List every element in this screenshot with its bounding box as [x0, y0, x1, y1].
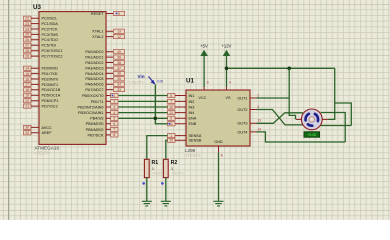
svg-text:PD3/INT1: PD3/INT1	[42, 83, 59, 87]
marker dot at RESET pin	[116, 13, 118, 15]
marker dot at ENB pin	[168, 123, 170, 125]
R2 value 1	[171, 167, 173, 171]
U1 right pin numbers	[257, 93, 261, 131]
svg-text:PC4/TDO: PC4/TDO	[42, 38, 59, 42]
svg-text:39: 39	[117, 55, 121, 59]
svg-text:PD2/INT0: PD2/INT0	[42, 77, 59, 81]
svg-text:ENA: ENA	[189, 117, 197, 121]
svg-text:6: 6	[113, 122, 115, 126]
svg-text:13: 13	[117, 30, 121, 34]
svg-text:8: 8	[221, 153, 223, 157]
svg-text:PA7/ADC7: PA7/ADC7	[85, 88, 103, 92]
svg-text:35: 35	[117, 77, 121, 81]
U3 right pin number boxes	[111, 11, 125, 137]
svg-text:PB1/T1: PB1/T1	[91, 100, 104, 104]
svg-text:4: 4	[113, 111, 115, 115]
U3 left pin stubs	[31, 18, 39, 133]
wire motor top right loop	[321, 113, 346, 143]
U1 value label L298	[185, 148, 196, 153]
U3 reference label	[33, 4, 41, 11]
svg-text:37: 37	[117, 66, 121, 70]
svg-text:16: 16	[25, 77, 29, 81]
svg-text:RESET: RESET	[91, 12, 104, 16]
svg-text:22: 22	[25, 17, 29, 21]
svg-text:19: 19	[25, 94, 29, 98]
U1 text placeholder	[185, 153, 201, 158]
U3 left pin number boxes	[24, 16, 32, 135]
svg-text:PC7/TOSC2: PC7/TOSC2	[42, 55, 63, 59]
svg-text:PC1/SDA: PC1/SDA	[42, 22, 59, 26]
svg-text:PD5/OC1A: PD5/OC1A	[42, 94, 61, 98]
wire PB0 to IN1	[119, 95, 168, 97]
svg-text:<TEXT>: <TEXT>	[171, 172, 184, 176]
U1 right pin stubs	[250, 98, 257, 132]
svg-text:1: 1	[171, 167, 173, 171]
R1 text placeholder	[152, 172, 165, 176]
svg-text:OUT3: OUT3	[237, 122, 247, 126]
svg-text:PA2/ADC2: PA2/ADC2	[85, 61, 103, 65]
svg-text:VS: VS	[226, 96, 231, 100]
svg-text:27: 27	[25, 44, 29, 48]
svg-text:40: 40	[117, 50, 121, 54]
U3 left pin names	[42, 17, 63, 136]
svg-text:14: 14	[25, 67, 29, 71]
svg-text:PD1/TXD: PD1/TXD	[42, 72, 58, 76]
svg-text:PB0/XCK/T0: PB0/XCK/T0	[82, 94, 104, 98]
svg-text:IN1: IN1	[189, 94, 195, 98]
wire R2 to ground	[165, 178, 167, 202]
svg-text:R2: R2	[171, 160, 178, 166]
motor body circle	[301, 109, 322, 130]
svg-text:2: 2	[257, 93, 259, 97]
svg-text:PC5/TDI: PC5/TDI	[42, 44, 57, 48]
wire PB3 to IN4	[119, 112, 168, 114]
power terminal +5V	[200, 44, 208, 87]
wire upper right branch	[335, 103, 352, 126]
svg-text:AVCC: AVCC	[42, 126, 53, 130]
wire R1 to ground	[146, 178, 148, 202]
svg-text:12: 12	[117, 35, 121, 39]
svg-text:PC2/TCK: PC2/TCK	[42, 27, 59, 31]
svg-text:1: 1	[170, 134, 172, 138]
svg-text:OUT2: OUT2	[237, 108, 247, 112]
motor hub	[309, 117, 314, 122]
svg-text:PB2/INT2/AIN0: PB2/INT2/AIN0	[78, 105, 104, 109]
U1 top pin numbers 9 and 4	[207, 81, 231, 85]
svg-text:6: 6	[170, 117, 172, 121]
svg-text:18: 18	[25, 88, 29, 92]
power terminal +12V	[221, 44, 231, 87]
svg-text:PC0/SCL: PC0/SCL	[42, 17, 58, 21]
U3 right pin names	[78, 12, 105, 137]
svg-text:20: 20	[25, 99, 29, 103]
wire U1 GND pin down	[218, 152, 220, 201]
wire SENSA to R1	[147, 136, 168, 160]
svg-text:14: 14	[257, 127, 261, 131]
svg-text:PA5/ADC5: PA5/ADC5	[85, 77, 103, 81]
svg-text:PB5/MOSI: PB5/MOSI	[86, 122, 104, 126]
svg-text:IN4: IN4	[189, 111, 195, 115]
U3 text placeholder	[35, 150, 51, 155]
svg-text:+12V: +12V	[221, 44, 231, 49]
svg-text:R1: R1	[152, 160, 159, 166]
net label Vin with probe arrow	[138, 74, 164, 85]
svg-text:13: 13	[257, 119, 261, 123]
motor commutator arcs	[305, 114, 318, 126]
wire PB2 to IN3	[119, 106, 168, 108]
svg-text:10: 10	[169, 105, 173, 109]
svg-text:3: 3	[257, 105, 259, 109]
svg-text:9: 9	[207, 81, 209, 85]
marker dot below R2	[161, 182, 164, 185]
U1 left pin number boxes	[168, 93, 176, 142]
marker dot at PB0 pin	[111, 95, 113, 97]
R1 reference label	[152, 160, 159, 166]
svg-text:+0.00: +0.00	[307, 133, 316, 137]
svg-text:17: 17	[25, 83, 29, 87]
svg-text:PB4/SS: PB4/SS	[90, 117, 104, 121]
junction rail / OUT1 branch	[287, 67, 291, 71]
svg-text:PB6/MISO: PB6/MISO	[86, 128, 104, 132]
wire rail drop at motor right	[329, 68, 335, 119]
wire OUT4 under motor	[257, 132, 346, 142]
svg-text:U1: U1	[186, 78, 194, 85]
svg-text:U3: U3	[33, 4, 41, 11]
svg-text:ENB: ENB	[189, 122, 197, 126]
ground symbol under U1 GND	[214, 201, 224, 206]
motor rpm display	[304, 132, 320, 138]
svg-text:21: 21	[25, 104, 29, 108]
svg-text:PB7/SCK: PB7/SCK	[87, 133, 104, 137]
svg-text:SENSB: SENSB	[189, 139, 202, 143]
svg-text:5: 5	[113, 117, 115, 121]
svg-text:15: 15	[25, 72, 29, 76]
svg-text:2: 2	[113, 100, 115, 104]
wire PB1 to IN2	[119, 100, 168, 102]
U1 top pin labels VCC VS	[199, 96, 231, 100]
svg-text:7: 7	[170, 100, 172, 104]
marker dot below R1	[142, 182, 145, 185]
ground symbol under R2	[161, 201, 171, 206]
U1 top pin stubs	[204, 86, 226, 91]
svg-text:26: 26	[25, 38, 29, 42]
svg-text:24: 24	[25, 27, 29, 31]
U1 reference label	[186, 78, 194, 85]
svg-text:32: 32	[25, 131, 29, 135]
junction Vin/ENA	[154, 117, 158, 121]
text placeholder near Vin	[129, 79, 145, 84]
wire SENSB to R2	[166, 140, 168, 159]
svg-text:XTAL1: XTAL1	[92, 30, 103, 34]
R1 value 1	[152, 167, 154, 171]
U1 right pin names	[237, 96, 247, 134]
svg-text:+5V: +5V	[200, 44, 208, 49]
svg-text:36: 36	[117, 72, 121, 76]
svg-text:25: 25	[25, 33, 29, 37]
svg-text:PA0/ADC0: PA0/ADC0	[85, 50, 103, 54]
svg-text:<TEXT>: <TEXT>	[185, 153, 201, 158]
svg-text:PA6/ADC6: PA6/ADC6	[85, 83, 103, 87]
U1 left pin stubs	[175, 96, 186, 141]
svg-text:PA4/ADC4: PA4/ADC4	[85, 72, 103, 76]
svg-text:AREF: AREF	[42, 131, 53, 135]
wire OUT1 to branch	[257, 97, 290, 99]
R2 reference label	[171, 160, 178, 166]
R2 text placeholder	[171, 172, 184, 176]
U3 value label ATMEGA16	[35, 146, 60, 151]
svg-text:1: 1	[113, 94, 115, 98]
svg-text:12: 12	[169, 111, 173, 115]
junction on VS stem	[225, 67, 229, 71]
svg-text:PB3/OC0/AIN1: PB3/OC0/AIN1	[78, 111, 104, 115]
svg-text:9: 9	[118, 12, 120, 16]
svg-text:PD0/RXD: PD0/RXD	[42, 67, 59, 71]
svg-text:PA3/ADC3: PA3/ADC3	[85, 66, 103, 70]
sheet border line	[8, 0, 10, 220]
svg-text:PD4/OC1B: PD4/OC1B	[42, 88, 61, 92]
svg-text:OUT1: OUT1	[237, 96, 247, 100]
svg-text:34: 34	[117, 83, 121, 87]
svg-text:0.00: 0.00	[157, 79, 163, 83]
svg-text:7: 7	[113, 128, 115, 132]
ground symbol under R1	[142, 201, 152, 206]
svg-text:3: 3	[113, 105, 115, 109]
U1 bottom pin GND stub	[218, 146, 220, 152]
U1 left pin names	[189, 94, 202, 143]
U1 GND pin name	[214, 140, 223, 144]
svg-text:30: 30	[25, 126, 29, 130]
svg-text:29: 29	[25, 54, 29, 58]
svg-text:23: 23	[25, 22, 29, 26]
svg-text:SENSA: SENSA	[189, 134, 202, 138]
svg-text:33: 33	[117, 88, 121, 92]
svg-text:PD7/OC2: PD7/OC2	[42, 105, 58, 109]
wire rail branch down to motor left	[289, 68, 295, 119]
wire PB4 to ENA	[119, 117, 168, 119]
svg-text:GND: GND	[214, 140, 223, 144]
resistor R1 body	[144, 159, 149, 177]
svg-text:XTAL2: XTAL2	[92, 35, 103, 39]
wire OUT3 crossing to motor upper left	[257, 113, 304, 124]
resistor R2 body	[163, 159, 168, 177]
svg-text:OUT4: OUT4	[237, 130, 247, 134]
U1 GND pin number 8	[221, 153, 223, 157]
svg-text:IN3: IN3	[189, 105, 195, 109]
svg-text:4: 4	[229, 81, 231, 85]
U3 right pin stubs	[106, 14, 113, 135]
svg-text:IN2: IN2	[189, 100, 195, 104]
svg-text:1: 1	[152, 167, 154, 171]
svg-text:PC3/TMS: PC3/TMS	[42, 33, 59, 37]
svg-text:Vin: Vin	[138, 74, 145, 79]
svg-text:<TEXT>: <TEXT>	[35, 150, 51, 155]
svg-text:5: 5	[170, 94, 172, 98]
svg-text:VCC: VCC	[199, 96, 207, 100]
svg-text:28: 28	[25, 49, 29, 53]
driver U1 L298 body	[186, 90, 250, 146]
MCU U3 ATMEGA16 body	[39, 12, 106, 145]
motor left pin stub	[296, 118, 302, 120]
svg-text:15: 15	[169, 139, 173, 143]
svg-text:<TEXT>: <TEXT>	[129, 79, 145, 84]
wire Vin vertical to ENB	[155, 85, 167, 124]
svg-text:PA1/ADC1: PA1/ADC1	[85, 56, 103, 60]
wire +12V rail to right	[227, 67, 335, 69]
svg-text:8: 8	[113, 133, 115, 137]
svg-text:PC6/TOSC1: PC6/TOSC1	[42, 49, 63, 53]
svg-text:38: 38	[117, 61, 121, 65]
wire motor lower right	[321, 125, 352, 127]
svg-text:PD6/ICP1: PD6/ICP1	[42, 99, 59, 103]
motor right pin stub	[322, 118, 329, 120]
wire OUT2 crossing to motor lower left	[257, 110, 304, 125]
